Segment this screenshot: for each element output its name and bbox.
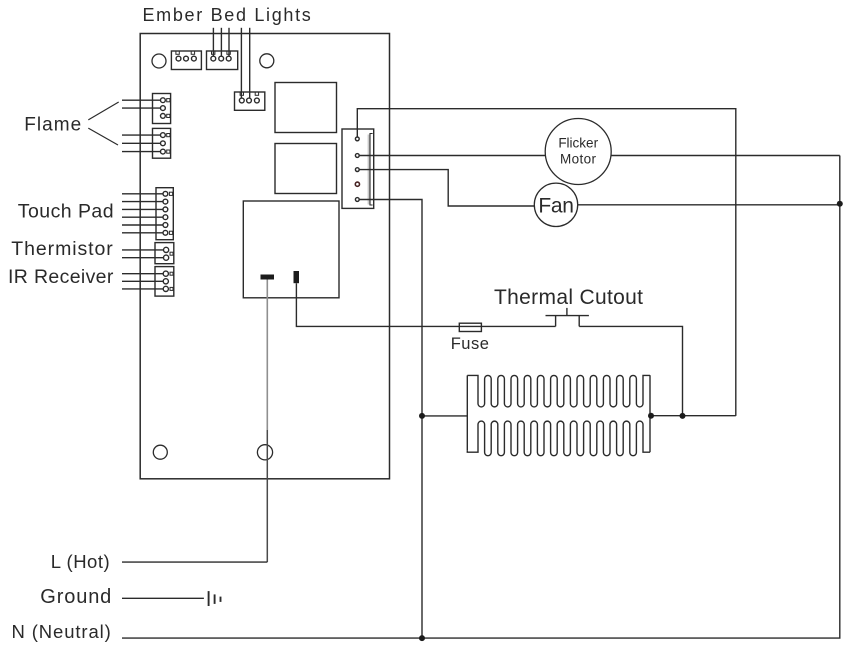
ground symbol bbox=[209, 591, 221, 606]
junction fan neutral riser bbox=[837, 201, 843, 207]
wire flame lower pin3 bbox=[122, 151, 161, 153]
wire L hot horizontal bbox=[122, 561, 267, 563]
wire heater exit bbox=[650, 415, 736, 417]
wire pin5 to neutral bbox=[359, 200, 422, 639]
wire live to fuse bbox=[296, 283, 555, 326]
flame label leader upper bbox=[88, 102, 118, 120]
flicker motor M1 bbox=[545, 119, 611, 185]
wire IR 2 bbox=[122, 280, 163, 282]
wire ember bed lights 5 bbox=[249, 28, 251, 98]
terminal bar L (horizontal) bbox=[261, 275, 275, 280]
wire flame lower pin2 bbox=[122, 142, 161, 144]
flame label leader lower bbox=[88, 128, 118, 145]
heater element HE1 left bar bbox=[466, 375, 468, 450]
mounting hole top-left bbox=[152, 54, 166, 68]
wire flame lower pin1 bbox=[122, 134, 161, 136]
relay K2 bbox=[275, 144, 337, 194]
junction neutral bbox=[419, 635, 425, 641]
wire touch pad 3 bbox=[122, 208, 163, 210]
svg-text:Fuse: Fuse bbox=[451, 335, 490, 353]
heater element HE1 right bar bbox=[649, 375, 651, 452]
svg-text:N (Neutral): N (Neutral) bbox=[12, 621, 112, 642]
wire touch pad 4 bbox=[122, 216, 163, 218]
wire pin1 to heater right bbox=[357, 109, 736, 416]
junction heater left bbox=[419, 413, 425, 419]
wire fan to neutral riser bbox=[578, 204, 840, 206]
connector J8 (IR receiver, 3-pin) bbox=[155, 267, 174, 297]
wire pin2 to flicker motor bbox=[359, 155, 545, 157]
svg-text:IR Receiver: IR Receiver bbox=[8, 266, 114, 288]
wire ember bed lights 4 bbox=[240, 28, 242, 98]
wire pin3 to fan bbox=[359, 170, 534, 206]
connector J7 (thermistor, 2-pin) bbox=[155, 243, 174, 264]
wire flicker motor to neutral riser bbox=[611, 155, 840, 157]
wire ember bed lights 3 bbox=[228, 28, 230, 56]
wire touch pad 2 bbox=[122, 201, 163, 203]
connector J2 (top, 3-pin, ember bed) bbox=[207, 51, 238, 70]
fan M2 bbox=[534, 183, 577, 226]
wire neutral line bbox=[122, 156, 840, 639]
thermal cutout TC1 bbox=[546, 308, 589, 327]
PCB board outline bbox=[140, 34, 389, 479]
mounting hole bottom-right bbox=[257, 445, 272, 460]
wire L hot lower bbox=[266, 430, 268, 562]
wire flame upper pin2 bbox=[122, 107, 161, 109]
wire thermistor 1 bbox=[122, 249, 164, 251]
heater element HE1 top coil bbox=[467, 375, 650, 407]
svg-text:Flicker: Flicker bbox=[558, 136, 598, 151]
wire IR 1 bbox=[122, 273, 163, 275]
wire ember bed lights 1 bbox=[212, 28, 214, 56]
wire heater entry bbox=[422, 415, 467, 417]
wire flame upper pin1 bbox=[122, 99, 161, 101]
connector J6 (touch pad, 6-pin) bbox=[156, 188, 173, 240]
terminal bar N (vertical) bbox=[294, 271, 300, 283]
svg-text:Touch Pad: Touch Pad bbox=[18, 200, 114, 222]
wire touch pad 6 bbox=[122, 232, 163, 234]
wire touch pad 5 bbox=[122, 224, 163, 226]
svg-text:Thermistor: Thermistor bbox=[11, 238, 113, 260]
svg-text:Ember Bed Lights: Ember Bed Lights bbox=[143, 5, 313, 25]
wire IR 3 bbox=[122, 288, 163, 290]
connector J3 (ember bed, 3-pin) bbox=[235, 92, 265, 110]
wire L hot gray upper bbox=[266, 280, 268, 431]
svg-text:Flame: Flame bbox=[24, 115, 82, 136]
wire thermistor 2 bbox=[122, 257, 164, 259]
svg-text:L (Hot): L (Hot) bbox=[51, 551, 110, 572]
wire ground lead bbox=[122, 597, 204, 599]
connector J4 (flame upper, 3-pin) bbox=[153, 94, 171, 124]
svg-text:Thermal Cutout: Thermal Cutout bbox=[494, 286, 643, 309]
junction thermal cutout bbox=[680, 413, 686, 419]
mounting hole top-right bbox=[260, 54, 274, 68]
connector J1 (top, 3-pin) bbox=[171, 51, 201, 70]
wire touch pad 1 bbox=[122, 193, 163, 195]
svg-text:Fan: Fan bbox=[538, 195, 573, 218]
heater element HE1 bottom coil bbox=[467, 421, 650, 456]
wire ember bed lights 2 bbox=[220, 28, 222, 56]
junction heater right bbox=[648, 413, 654, 419]
svg-text:Motor: Motor bbox=[560, 152, 596, 167]
connector J5 (flame lower, 3-pin) bbox=[153, 128, 171, 158]
svg-text:Ground: Ground bbox=[40, 586, 112, 608]
transformer T1 bbox=[243, 201, 339, 298]
wire thermal cutout to heater bbox=[579, 326, 682, 416]
connector J9 (5-pin output) bbox=[342, 129, 374, 208]
relay K1 bbox=[275, 83, 337, 133]
mounting hole bottom-left bbox=[153, 445, 167, 459]
fuse F1 bbox=[459, 323, 481, 331]
